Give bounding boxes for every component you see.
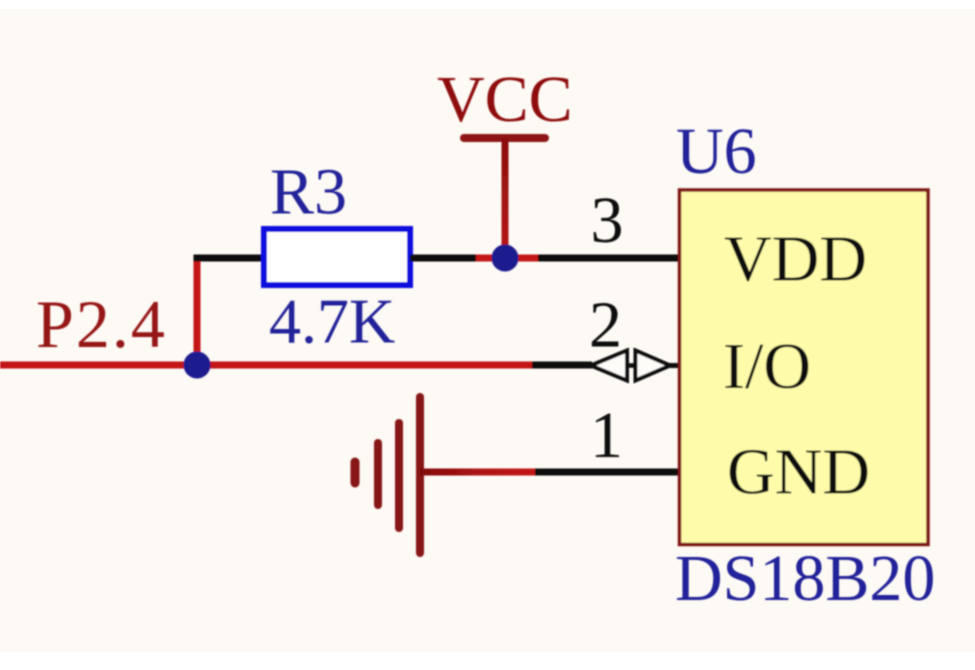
svg-text:U6: U6 bbox=[676, 115, 757, 188]
pin 2 I/O bidirectional arrow right triangle bbox=[636, 351, 671, 381]
svg-text:R3: R3 bbox=[270, 156, 347, 229]
svg-text:VCC: VCC bbox=[437, 63, 573, 136]
pin 2 I/O bidirectional arrow left triangle bbox=[591, 351, 627, 381]
wire black from red segment to pin 1 bbox=[535, 469, 681, 476]
resistor R3 body bbox=[264, 229, 410, 285]
power VCC bar bbox=[464, 134, 545, 142]
wire black from corner to resistor R3 left bbox=[194, 255, 267, 262]
ground bar 2 bbox=[395, 423, 403, 528]
svg-text:I/O: I/O bbox=[723, 330, 811, 403]
wire red from ground to pin 1 bbox=[420, 469, 535, 476]
power VCC stem bbox=[502, 138, 509, 258]
wire black from P2.4 net to I/O arrow bbox=[532, 362, 592, 369]
pin 2 I/O arrow center stub bbox=[624, 363, 638, 368]
pin 2 I/O arrow stub to box bbox=[667, 363, 680, 368]
ground bar 3 bbox=[374, 443, 382, 505]
svg-text:2: 2 bbox=[589, 289, 622, 362]
wire net P2.4 horizontal red bbox=[0, 362, 532, 369]
ground bar 4 smallest bbox=[351, 462, 360, 483]
svg-text:1: 1 bbox=[590, 399, 623, 472]
svg-text:DS18B20: DS18B20 bbox=[675, 542, 935, 615]
svg-text:4.7K: 4.7K bbox=[269, 286, 395, 357]
node VCC junction bbox=[492, 245, 519, 272]
ground bar 1 largest bbox=[416, 397, 424, 553]
svg-text:3: 3 bbox=[591, 184, 624, 257]
wire vertical red from P2.4 node to resistor net bbox=[194, 255, 201, 365]
node P2.4 junction bbox=[184, 352, 211, 379]
svg-text:VDD: VDD bbox=[724, 223, 867, 296]
wire black resistor right to VCC tap bbox=[410, 255, 476, 262]
wire red segment at VCC tap bbox=[476, 255, 538, 262]
IC U6 DS18B20 body bbox=[680, 190, 929, 545]
wire black from VCC tap to pin 3 bbox=[538, 255, 681, 262]
svg-text:P2.4: P2.4 bbox=[36, 286, 167, 362]
svg-text:GND: GND bbox=[727, 436, 870, 509]
